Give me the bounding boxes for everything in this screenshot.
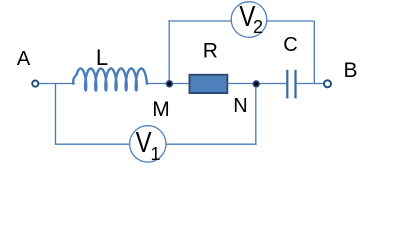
capacitor C plate right — [294, 70, 296, 99]
svg-text:R: R — [203, 39, 218, 62]
wire resistor to N to capacitor — [227, 83, 286, 85]
svg-text:1: 1 — [150, 144, 160, 164]
wire inductor to M and resistor — [146, 83, 190, 85]
top wire (M to V2 to B node) — [168, 20, 314, 22]
svg-text:B: B — [343, 59, 357, 82]
junction N — [253, 81, 259, 87]
terminal B — [324, 80, 331, 87]
wire N down to bottom wire — [255, 84, 257, 145]
inductor L — [73, 69, 147, 91]
svg-text:A: A — [17, 48, 31, 70]
svg-text:M: M — [152, 98, 170, 121]
voltmeter V1 — [130, 126, 166, 162]
resistor R — [190, 75, 228, 93]
svg-text:C: C — [283, 34, 297, 56]
wire M up to top wire — [168, 20, 170, 84]
svg-text:N: N — [233, 95, 247, 117]
wire capacitor to B — [297, 83, 325, 85]
terminal A — [32, 81, 38, 87]
wire V2 branch down to node between C and B — [313, 21, 315, 84]
wire branch at A going down — [55, 84, 57, 145]
voltmeter V2 — [231, 2, 267, 38]
junction M — [166, 81, 172, 87]
capacitor C plate left — [286, 70, 288, 99]
bottom wire (A branch to N branch, through V1) — [55, 143, 257, 145]
svg-text:2: 2 — [253, 17, 263, 37]
wire A to inductor — [39, 83, 76, 85]
svg-text:L: L — [96, 45, 108, 70]
